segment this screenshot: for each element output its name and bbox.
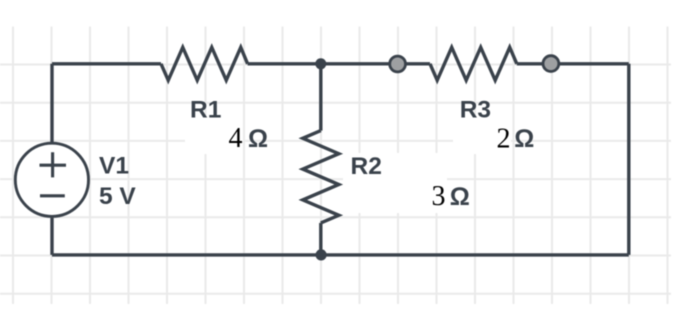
wire left lower (V1 minus terminal down to bottom wire): [50, 218, 53, 255]
svg-text:5 V: 5 V: [99, 183, 136, 210]
wire bottom (full return path): [52, 253, 629, 256]
node A junction dot (top, R1/R2/R3 net): [315, 58, 326, 69]
svg-text:4: 4: [229, 123, 243, 154]
voltage source V1 circle: [15, 143, 88, 216]
svg-text:V1: V1: [99, 153, 129, 180]
terminal dot left of R3: [390, 56, 406, 72]
wire middle upper (node A down to R2): [319, 64, 322, 131]
svg-text:3: 3: [432, 181, 446, 212]
wire top-middle segment (R1 to node A to R3): [248, 62, 430, 65]
svg-text:Ω: Ω: [248, 125, 268, 153]
wire top-right segment (R3 to corner): [517, 62, 629, 65]
wire left upper (top wire down to V1 plus terminal): [50, 64, 53, 142]
wire top-left segment (V1 to R1): [52, 62, 161, 65]
resistor R3: [430, 47, 517, 80]
svg-text:Ω: Ω: [450, 183, 470, 211]
svg-text:2: 2: [497, 123, 511, 154]
resistor R2: [303, 131, 339, 223]
terminal dot right of R3: [543, 56, 559, 72]
svg-text:R3: R3: [460, 97, 491, 124]
svg-text:R1: R1: [190, 97, 221, 124]
svg-text:Ω: Ω: [514, 125, 534, 153]
wire right (top corner to bottom corner): [627, 64, 630, 255]
wire middle lower (R2 down to node B): [319, 223, 322, 255]
resistor R1: [161, 47, 248, 80]
node B junction dot (bottom, R2/return net): [316, 249, 327, 260]
plus sign of V1: [40, 152, 67, 177]
svg-text:R2: R2: [351, 153, 382, 180]
minus sign of V1: [40, 194, 65, 197]
